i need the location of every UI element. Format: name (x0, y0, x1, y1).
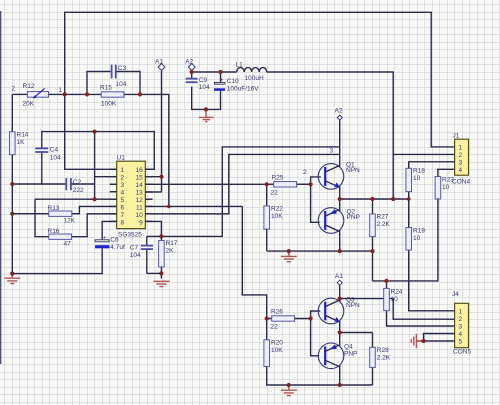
capacitor C3 (112, 65, 127, 89)
svg-text:9: 9 (139, 219, 143, 226)
svg-text:2: 2 (303, 169, 307, 176)
wire pin15 stub (145, 176, 161, 178)
capacitor C9 (186, 77, 210, 91)
wire Q3/Q4 emitter junction (339, 320, 341, 346)
wire pin1 from R12 node (65, 94, 117, 169)
svg-text:10: 10 (413, 175, 421, 182)
svg-text:11: 11 (136, 204, 143, 211)
wire pin2 divider vertical x=94.6 (94, 132, 96, 200)
wire pin13 stub (145, 191, 161, 193)
resistor R19 (406, 228, 425, 251)
wire R22 column (266, 184, 268, 206)
svg-text:2K: 2K (166, 248, 175, 255)
svg-text:R28: R28 (377, 347, 389, 354)
svg-text:R24: R24 (391, 289, 403, 296)
wire Q2 collector down (339, 230, 341, 251)
transistor Q2 PNP (318, 208, 360, 234)
svg-text:C10: C10 (227, 78, 239, 85)
wire Q3 base jog (295, 311, 321, 319)
wire C3 bridge (87, 72, 111, 95)
svg-text:3: 3 (459, 160, 463, 167)
ground below R17 (153, 281, 169, 286)
svg-text:CON4: CON4 (452, 179, 470, 186)
wire left ground rail x=12.3 (11, 94, 13, 131)
wire R26 node (267, 318, 272, 320)
capacitor C6 electrolytic (95, 234, 125, 251)
svg-text:NPN: NPN (346, 302, 360, 309)
wire pin9 down (145, 221, 161, 236)
wire C7 branch (146, 236, 148, 245)
svg-text:C7: C7 (130, 245, 139, 252)
svg-text:R14: R14 (17, 132, 29, 139)
resistor R25 (271, 175, 297, 197)
svg-text:1K: 1K (17, 139, 26, 146)
svg-text:A2: A2 (185, 59, 193, 66)
svg-text:PNP: PNP (347, 214, 360, 221)
svg-text:14: 14 (136, 182, 144, 189)
svg-text:4: 4 (459, 167, 463, 174)
wire C6 bottom to ground rail (12, 248, 102, 273)
wire pin10 up (145, 154, 339, 213)
svg-text:222: 222 (73, 187, 84, 194)
svg-text:C4: C4 (50, 147, 59, 154)
svg-text:U1: U1 (117, 155, 126, 162)
svg-text:R19: R19 (413, 228, 425, 235)
ground on rail y=385 (281, 385, 297, 396)
wire R18/R19 column (408, 192, 410, 228)
svg-text:4: 4 (459, 331, 463, 338)
svg-text:2.2K: 2.2K (377, 221, 391, 228)
svg-text:104: 104 (130, 252, 141, 259)
wire pin5 row (35, 198, 117, 200)
svg-text:2.2K: 2.2K (377, 355, 391, 362)
resistor R16 (48, 228, 72, 248)
svg-text:10: 10 (391, 296, 399, 303)
svg-text:2: 2 (459, 152, 463, 159)
svg-text:13: 13 (136, 189, 144, 196)
svg-text:100uH: 100uH (245, 75, 264, 82)
svg-text:1: 1 (459, 308, 463, 315)
svg-text:R17: R17 (166, 240, 178, 247)
wire J4 pin5 gnd stub (418, 340, 424, 342)
svg-text:PNP: PNP (344, 351, 357, 358)
svg-text:3: 3 (330, 148, 334, 155)
wire J1 pin3 R18 (409, 162, 455, 169)
wire Q1/Q2 emitter junction and R27 row (339, 186, 341, 212)
svg-text:4.7uf: 4.7uf (110, 244, 125, 251)
svg-text:100uF/16V: 100uF/16V (227, 86, 259, 93)
svg-text:R12: R12 (23, 83, 35, 90)
svg-text:7: 7 (121, 212, 125, 219)
svg-text:R27: R27 (377, 214, 389, 221)
resistor R20 (264, 340, 283, 367)
svg-text:22: 22 (271, 324, 279, 331)
svg-text:10K: 10K (271, 213, 283, 220)
testpoint A1 diamond (155, 59, 165, 71)
wire C2 row (42, 183, 66, 185)
svg-text:R16: R16 (48, 228, 60, 235)
svg-text:10K: 10K (271, 347, 283, 354)
wire A1 testpoint stem bottom (339, 285, 341, 302)
svg-text:J1: J1 (453, 133, 460, 140)
wire C10 top (220, 72, 222, 82)
wire Q1 base jog net2 (297, 177, 321, 184)
svg-text:10: 10 (413, 235, 421, 242)
capacitor C7 (130, 245, 153, 260)
sideways ground at J4 pins 4/5 (411, 334, 421, 348)
wire vref net pin16 (42, 132, 155, 170)
svg-text:5: 5 (121, 197, 125, 204)
svg-text:10: 10 (442, 184, 450, 191)
svg-text:15: 15 (136, 174, 144, 181)
svg-text:104: 104 (50, 155, 61, 162)
wire A1 testpoint stem (161, 71, 163, 192)
svg-text:R26: R26 (271, 309, 283, 316)
testpoint A2 above Q1 (335, 108, 343, 121)
resistor R27 (370, 214, 391, 237)
connector J4 CON5 (452, 291, 471, 356)
svg-text:SG3525: SG3525 (118, 232, 142, 239)
svg-text:R25: R25 (272, 175, 284, 182)
wire R20 column (266, 319, 268, 340)
svg-text:A1: A1 (155, 59, 163, 66)
svg-text:100K: 100K (101, 101, 117, 108)
svg-text:L1: L1 (236, 62, 244, 69)
svg-text:20K: 20K (23, 101, 35, 108)
transistor Q1 NPN (318, 162, 360, 190)
resistor R15 (100, 85, 124, 108)
svg-text:R13: R13 (48, 205, 60, 212)
svg-text:104: 104 (199, 84, 210, 91)
transistor Q4 PNP (318, 343, 357, 369)
resistor R26 (271, 309, 295, 331)
wire R23 bottom (373, 199, 438, 281)
svg-text:12: 12 (136, 197, 144, 204)
svg-text:C9: C9 (199, 77, 208, 84)
wire pin14 row to base jog (145, 183, 310, 185)
capacitor C4 (35, 147, 61, 162)
wire Q3 collector net to J4 pin2 (340, 299, 455, 320)
wire supply y=72 (192, 71, 237, 73)
svg-text:10: 10 (136, 212, 144, 219)
svg-text:R20: R20 (271, 340, 283, 347)
svg-text:R22: R22 (271, 206, 283, 213)
wire R25 left node (267, 183, 274, 185)
wire top rail y=12 (65, 12, 455, 147)
svg-text:Q4: Q4 (344, 344, 353, 351)
svg-text:2: 2 (459, 316, 463, 323)
svg-text:R18: R18 (413, 168, 425, 175)
resistor R18 (406, 168, 425, 192)
connector J1 CON4 (452, 133, 470, 186)
wire R24 branch (386, 281, 388, 289)
svg-text:CON5: CON5 (453, 349, 471, 356)
capacitor C10 electrolytic (214, 77, 259, 93)
wire main horizontal y=94.4 (12, 93, 27, 95)
testpoint A2 diamond (185, 59, 195, 71)
svg-text:5: 5 (459, 338, 463, 345)
IC U1 SG3525 (110, 155, 153, 239)
wire Q1 collector (339, 120, 341, 167)
resistor R28 (370, 347, 391, 367)
resistor R24 (384, 288, 403, 310)
wire R16 to pin7 (35, 199, 49, 237)
wire R27 column (372, 199, 374, 214)
wire pin8 to C6 (102, 221, 117, 239)
wire A2 diamond stem / C9 (191, 71, 193, 78)
svg-text:C2: C2 (73, 179, 82, 186)
resistor R22 (264, 206, 283, 230)
ground bottom-left rail (4, 274, 20, 284)
svg-text:1: 1 (59, 87, 63, 94)
svg-text:6: 6 (121, 204, 125, 211)
svg-text:2: 2 (121, 174, 125, 181)
inductor L1 (236, 62, 267, 82)
wire bottom rail upper section (267, 250, 373, 252)
svg-text:+: + (220, 77, 224, 84)
wire R13 to pin6 (12, 213, 49, 215)
wire J4 pin4 (424, 334, 455, 342)
wire Q4 collector (339, 365, 341, 385)
wire C4 bottom to gnd row (12, 152, 42, 184)
svg-text:12K: 12K (64, 218, 76, 225)
wire R28 column (372, 333, 374, 348)
svg-text:A2: A2 (335, 108, 343, 115)
wire pin12 stub (145, 198, 152, 200)
svg-text:22: 22 (271, 190, 279, 197)
wire R17 column between dots (160, 236, 162, 240)
svg-text:3: 3 (459, 323, 463, 330)
svg-text:NPN: NPN (346, 167, 360, 174)
transistor Q3 NPN (318, 297, 360, 324)
wire pin11 row (145, 205, 242, 207)
svg-text:C3: C3 (118, 65, 127, 72)
svg-text:1: 1 (121, 167, 125, 174)
svg-text:104: 104 (116, 81, 127, 88)
svg-text:1: 1 (459, 145, 463, 152)
svg-text:4: 4 (121, 189, 125, 196)
testpoint A1 above Q3 (335, 273, 343, 285)
wire pin9 net to x=222 (147, 147, 340, 237)
wire pin11 net down to Q3 base network (242, 206, 266, 318)
resistor R23 (435, 177, 454, 199)
resistor R13 (48, 205, 76, 225)
wire J1 pin4 R23 (438, 169, 455, 176)
svg-text:+: + (103, 234, 107, 241)
wire J1 pin2 supply branch (393, 153, 454, 155)
svg-text:8: 8 (121, 219, 125, 226)
capacitor C2 (66, 178, 84, 194)
svg-text:J4: J4 (452, 291, 459, 298)
resistor R17 (159, 240, 178, 267)
svg-text:R15: R15 (100, 85, 112, 92)
sheet left border (0, 11, 2, 364)
svg-text:2: 2 (12, 86, 16, 93)
resistor R14 (10, 132, 29, 155)
ground below C9/C10 (199, 109, 214, 121)
potentiometer R12 (23, 83, 49, 108)
wire pin3 stub (111, 183, 117, 185)
ground on rail y=251 (281, 251, 297, 262)
svg-text:3: 3 (121, 182, 125, 189)
svg-text:A1: A1 (335, 273, 343, 280)
svg-text:47: 47 (64, 241, 72, 248)
wire pin4 stub (110, 191, 117, 193)
svg-text:16: 16 (136, 167, 144, 174)
